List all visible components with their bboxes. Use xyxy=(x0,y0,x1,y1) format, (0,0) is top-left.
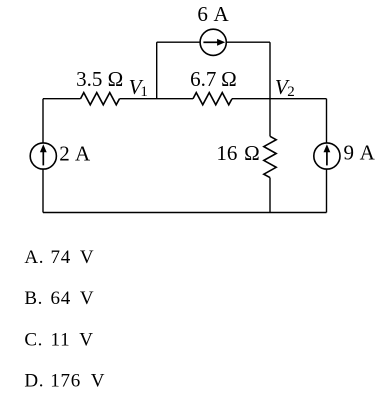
svg-text:B.: B. xyxy=(24,288,43,309)
svg-text:2 A: 2 A xyxy=(59,141,91,165)
svg-text:1: 1 xyxy=(140,84,148,100)
svg-text:A.: A. xyxy=(24,247,44,268)
wire: top box horizontal xyxy=(157,41,270,43)
wire: main horizontal right segment xyxy=(232,98,327,100)
svg-text:6 A: 6 A xyxy=(197,2,229,26)
svg-text:176 V: 176 V xyxy=(50,371,105,392)
svg-text:6.7 Ω: 6.7 Ω xyxy=(190,67,237,91)
wire: bottom horizontal xyxy=(43,212,327,214)
wire: left vertical branch xyxy=(42,99,44,213)
resistor 16 ohm xyxy=(264,136,276,177)
wire: top box right vertical xyxy=(269,42,271,98)
svg-text:11 V: 11 V xyxy=(51,330,94,351)
wire: middle vertical upper segment xyxy=(269,99,271,137)
svg-text:9 A: 9 A xyxy=(344,140,376,164)
svg-text:3.5 Ω: 3.5 Ω xyxy=(76,67,123,91)
svg-text:C.: C. xyxy=(24,330,43,351)
wire: top box left vertical xyxy=(156,42,158,98)
wire: main horizontal middle segment xyxy=(120,98,194,100)
current source I3 9A xyxy=(314,143,340,169)
svg-text:64 V: 64 V xyxy=(51,288,95,309)
svg-text:2: 2 xyxy=(287,84,295,100)
current source I2 2A xyxy=(30,143,56,169)
current source I1 6A xyxy=(200,29,226,55)
svg-text:16 Ω: 16 Ω xyxy=(216,141,259,165)
wire: main horizontal left segment xyxy=(43,98,81,100)
wire: middle vertical lower segment xyxy=(269,178,271,213)
resistor 6.7 ohm xyxy=(193,93,232,105)
svg-text:74 V: 74 V xyxy=(51,247,95,268)
svg-text:D.: D. xyxy=(24,371,44,392)
resistor 3.5 ohm xyxy=(81,93,120,105)
wire: right vertical branch xyxy=(326,99,328,213)
